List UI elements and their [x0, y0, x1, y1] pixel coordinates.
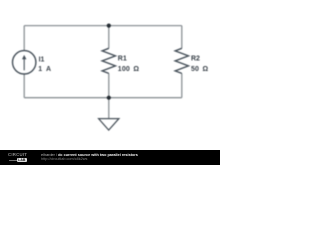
svg-text:R2: R2: [191, 56, 200, 63]
svg-text:R1: R1: [118, 56, 127, 63]
svg-text:50 Ω: 50 Ω: [191, 66, 208, 73]
svg-text:I1: I1: [39, 56, 45, 63]
svg-text:100 Ω: 100 Ω: [118, 66, 140, 73]
svg-text:1 A: 1 A: [38, 66, 51, 73]
